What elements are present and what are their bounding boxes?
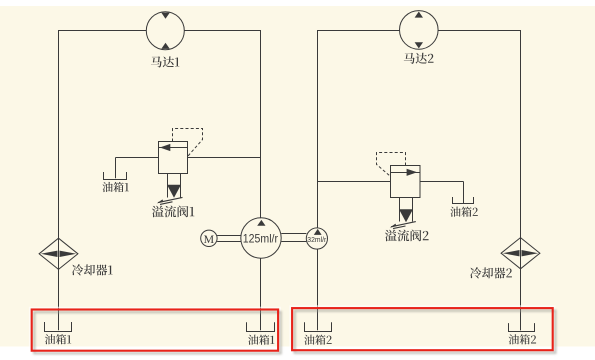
relief valve 2 internal arrow (right) (407, 169, 418, 176)
relief valve 1 main line left (116, 157, 159, 159)
label valve1 (152, 206, 194, 218)
label valve2 (385, 230, 429, 242)
pump 1 circle 125ml/r (241, 218, 281, 258)
relief valve 1 stem triangle (167, 185, 181, 198)
red highlight rectangle 2 red frame (292, 308, 553, 350)
relief valve 1 stem left (167, 174, 169, 198)
label mada1 (151, 56, 180, 67)
red highlight rectangle 1 red frame (32, 310, 278, 351)
label tankBM1 (248, 335, 274, 345)
relief valve 1 pilot dashed line (173, 129, 203, 157)
label tankBL (45, 334, 71, 344)
cooler 1 left arrow (41, 251, 58, 257)
cooler 1 right arrow (60, 251, 77, 257)
motor M2 top triangle (415, 12, 423, 18)
cooler 2 diamond (501, 238, 540, 269)
tank upper-right pipe (463, 182, 465, 204)
relief valve 2 stem right (412, 198, 414, 222)
label mada2 (404, 53, 434, 64)
motor M2 circle (400, 11, 439, 50)
motor M2 bottom triangle (415, 42, 423, 48)
cooler 2 right arrow (522, 250, 539, 256)
svg-text:125ml/r: 125ml/r (243, 232, 278, 246)
relief valve 1 internal arrow (left) (160, 144, 171, 151)
pump1 outlet to tank (260, 258, 262, 330)
electric motor M circle (201, 230, 217, 246)
relief valve 2 stem triangle (399, 209, 413, 222)
motor M1 top triangle (161, 13, 170, 19)
pump 1 top triangle (257, 220, 265, 226)
red highlight rectangle 1 gray shadow (34, 312, 280, 353)
wire motor2 right + right bus down to tank (438, 31, 520, 331)
svg-text:M: M (204, 232, 215, 246)
wire motor1 left + left bus down to tank (59, 31, 147, 331)
label tankBR (509, 334, 536, 344)
tank upper-right bracket (453, 197, 474, 204)
motor M1 circle (146, 12, 184, 50)
tank upper-left bracket (104, 172, 127, 180)
wire pump2 up and to motor2 left (318, 31, 400, 228)
motor M1 bottom triangle (161, 43, 170, 49)
red highlight rectangle 2 gray shadow (295, 311, 556, 353)
relief valve 2 internal line (391, 172, 421, 174)
relief valve 1 main line right (188, 157, 261, 159)
tank bottom-right bracket (509, 323, 535, 331)
relief valve 1 adjust stroke (158, 197, 183, 202)
shaft pump1 to pump2 (281, 233, 306, 235)
tank upper-left pipe (115, 158, 117, 179)
red highlight rectangle 1 white halo (30, 308, 280, 353)
label cooler2 (470, 267, 512, 278)
tank bottom-mid1 bracket (247, 322, 275, 331)
pump2 suction to tank (317, 249, 319, 330)
svg-text:32ml/r: 32ml/r (307, 235, 326, 244)
relief valve 2 stem left (399, 198, 401, 222)
relief valve 1 box (159, 142, 188, 174)
cooler 2 left arrow (503, 250, 520, 256)
pump 2 circle 32ml/r (306, 228, 327, 249)
label tankBM2 (304, 335, 331, 345)
relief valve 2 adjust stroke (391, 222, 416, 227)
relief valve 2 pilot dashed line (377, 153, 406, 177)
tank bottom-left bracket (45, 322, 72, 332)
relief valve 2 main line left (318, 181, 391, 183)
wire motor1 right down to pump 1 (184, 31, 260, 219)
red highlight rectangle 2 white halo (290, 306, 555, 352)
relief valve 2 box (391, 166, 421, 198)
relief valve 1 internal line (159, 147, 188, 149)
cooler 1 diamond (39, 238, 78, 269)
label tankUL (102, 182, 128, 192)
label cooler1 (72, 264, 113, 275)
shaft M to pump1 (217, 235, 241, 237)
tank bottom-mid2 bracket (305, 322, 332, 331)
relief valve 1 stem right (180, 174, 182, 198)
pump 2 top triangle (314, 229, 322, 235)
relief valve 2 main line right (420, 181, 464, 183)
label tankUR (450, 207, 477, 217)
